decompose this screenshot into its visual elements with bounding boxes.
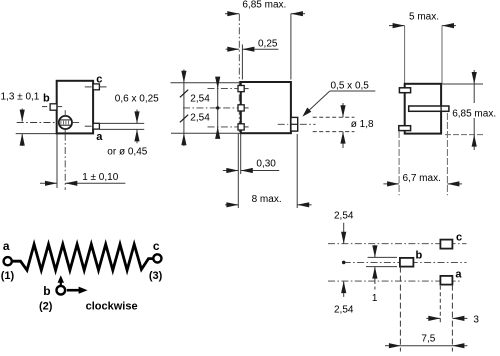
svg-text:6,85 max.: 6,85 max.: [452, 108, 496, 119]
svg-text:(3): (3): [149, 270, 163, 282]
svg-text:or ø 0,45: or ø 0,45: [107, 146, 147, 157]
svg-text:1,3 ± 0,1: 1,3 ± 0,1: [1, 91, 40, 102]
svg-text:2,54: 2,54: [334, 304, 354, 315]
svg-text:2,54: 2,54: [334, 210, 354, 221]
svg-text:6,7 max.: 6,7 max.: [403, 173, 441, 184]
svg-text:c: c: [456, 231, 462, 243]
svg-text:b: b: [43, 93, 50, 105]
svg-text:c: c: [96, 74, 102, 86]
svg-text:2,54: 2,54: [190, 113, 210, 124]
svg-text:0,25: 0,25: [258, 39, 278, 50]
svg-text:5 max.: 5 max.: [409, 12, 439, 23]
svg-text:3: 3: [473, 314, 479, 325]
svg-text:(2): (2): [39, 300, 53, 312]
svg-text:0,5 x 0,5: 0,5 x 0,5: [331, 81, 370, 92]
svg-text:(1): (1): [1, 270, 15, 282]
svg-text:b: b: [416, 249, 423, 261]
svg-text:a: a: [455, 269, 462, 281]
svg-text:1 ± 0,10: 1 ± 0,10: [82, 172, 119, 183]
svg-text:7,5: 7,5: [421, 334, 435, 345]
svg-text:c: c: [153, 239, 160, 253]
svg-text:a: a: [96, 131, 103, 143]
svg-text:a: a: [3, 239, 10, 253]
svg-text:0,6 x 0,25: 0,6 x 0,25: [115, 93, 159, 104]
svg-text:b: b: [43, 284, 50, 298]
svg-text:2,54: 2,54: [190, 94, 210, 105]
svg-text:6,85 max.: 6,85 max.: [242, 0, 286, 10]
svg-text:0,30: 0,30: [256, 159, 276, 170]
svg-text:clockwise: clockwise: [86, 301, 138, 313]
svg-text:1: 1: [372, 293, 378, 304]
svg-text:ø 1,8: ø 1,8: [351, 119, 374, 130]
svg-text:8 max.: 8 max.: [252, 194, 282, 205]
